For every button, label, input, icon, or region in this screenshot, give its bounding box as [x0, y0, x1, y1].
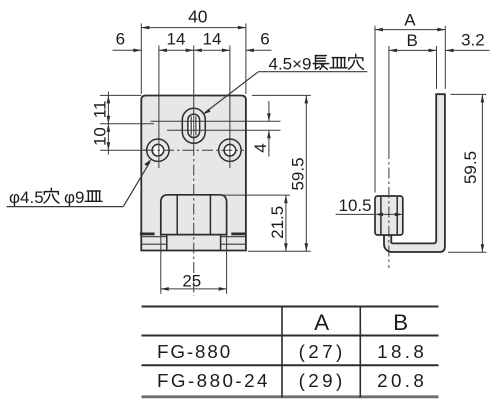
svg-text:25: 25	[182, 272, 201, 291]
dim 14 right	[194, 49, 230, 51]
table vertical divider 2	[359, 306, 361, 398]
dim A	[375, 29, 445, 31]
ref line 4 lower	[167, 129, 281, 131]
ext line hole center left	[100, 149, 147, 151]
svg-text:59.5: 59.5	[461, 151, 480, 184]
side view J profile	[384, 94, 445, 252]
front view plate body	[141, 96, 246, 251]
svg-text:A: A	[314, 310, 329, 335]
ext line plate right top	[245, 23, 247, 94]
hook block side view	[375, 196, 403, 235]
svg-text:φ9: φ9	[64, 188, 84, 207]
svg-text:(29): (29)	[299, 370, 346, 391]
table row divider	[142, 364, 439, 366]
ext line 59.5 side top	[450, 93, 486, 95]
dim 3.2	[446, 49, 490, 51]
svg-text:10: 10	[91, 127, 110, 146]
ext line B left	[388, 46, 390, 148]
svg-text:FG-880-24: FG-880-24	[157, 370, 270, 391]
dim B	[389, 49, 437, 51]
kanji naga (long)	[313, 55, 328, 69]
svg-text:FG-880: FG-880	[157, 341, 232, 362]
table header bottom border	[142, 335, 439, 337]
dim 11/10 line	[107, 92, 109, 155]
kanji ana (hole)	[349, 54, 364, 69]
center line holes horizontal	[144, 149, 245, 151]
black mark left	[140, 233, 155, 236]
right countersunk hole	[219, 139, 241, 161]
svg-text:4: 4	[251, 143, 270, 152]
side strip line left lower	[142, 243, 167, 245]
ext line 25 left	[160, 236, 162, 294]
svg-text:11: 11	[91, 101, 110, 119]
center line right hole vertical	[229, 46, 231, 169]
slot chord line right	[195, 116, 197, 135]
knob (hook front view)	[161, 195, 227, 235]
ext line A left	[374, 26, 376, 193]
svg-text:φ4.5: φ4.5	[9, 188, 44, 207]
ext line slot center left	[100, 123, 154, 125]
dim 59.5 front	[305, 95, 307, 251]
dim 4	[268, 101, 270, 121]
ext line bottom front	[248, 250, 311, 252]
slot outer countersink	[182, 108, 205, 143]
svg-text:10.5: 10.5	[339, 196, 372, 215]
side strip line left upper	[142, 236, 167, 238]
label underline top	[258, 71, 367, 73]
ext line plate top left	[100, 94, 141, 96]
ext line B right	[436, 46, 438, 89]
svg-text:B: B	[393, 310, 408, 335]
svg-text:40: 40	[188, 7, 208, 27]
svg-text:6: 6	[116, 30, 125, 49]
svg-text:6: 6	[260, 30, 269, 49]
svg-text:18.8: 18.8	[377, 341, 427, 362]
table vertical divider 1	[281, 306, 283, 398]
block inner line right	[396, 197, 398, 234]
kanji sara (dish) small	[85, 191, 102, 201]
ext line A right	[444, 26, 446, 89]
svg-text:(27): (27)	[299, 341, 346, 362]
label underline left	[7, 206, 124, 208]
ext line plate left top	[140, 23, 142, 94]
svg-text:B: B	[407, 31, 418, 50]
slot inner hole	[188, 114, 200, 137]
ext line 59.5 top front	[252, 94, 311, 96]
ext line 59.5 side bottom	[448, 251, 486, 253]
svg-text:4.5×9: 4.5×9	[269, 54, 312, 73]
table bottom border	[142, 395, 439, 398]
dim 14 left	[159, 49, 194, 51]
kanji ana (hole) small	[44, 188, 59, 203]
dim 6 right	[246, 49, 272, 51]
table top border	[142, 306, 439, 308]
knob inner line right	[209, 196, 211, 235]
center line vertical plate	[193, 46, 195, 146]
left countersunk hole	[147, 139, 169, 161]
svg-text:59.5: 59.5	[288, 157, 307, 190]
ext line 21.5 top	[223, 194, 290, 196]
tab left edge	[166, 235, 168, 249]
black mark right	[231, 233, 246, 236]
dim 21.5	[285, 195, 287, 251]
block center line	[388, 148, 390, 268]
svg-text:14: 14	[203, 30, 222, 49]
kanji sara (dish)	[330, 58, 347, 68]
side strip line right lower	[221, 243, 245, 245]
side strip line right upper	[221, 236, 245, 238]
leader to left hole	[123, 162, 150, 207]
dim 6 left	[113, 49, 142, 51]
dim 59.5 side	[481, 94, 483, 252]
svg-text:A: A	[404, 10, 416, 29]
dim 10.5	[336, 213, 375, 215]
svg-text:3.2: 3.2	[461, 31, 485, 50]
tab right edge	[220, 235, 222, 249]
svg-text:20.8: 20.8	[377, 370, 427, 391]
leader to slot	[205, 72, 258, 113]
ext line 25 right	[226, 236, 228, 294]
svg-text:21.5: 21.5	[268, 206, 287, 239]
center line left hole vertical	[158, 46, 160, 169]
dim 25	[161, 288, 227, 290]
block inner line left	[380, 197, 382, 234]
knob inner line left	[176, 196, 178, 235]
dim 40	[141, 27, 246, 29]
svg-text:14: 14	[167, 30, 186, 49]
slot chord line left	[190, 116, 192, 135]
